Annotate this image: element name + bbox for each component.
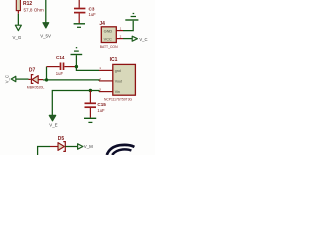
svg-text:2: 2 [120, 34, 122, 38]
svg-text:gnd: gnd [115, 69, 121, 73]
wire junction to C14 left plate [47, 66, 60, 68]
J4 pin 2 stub [116, 38, 123, 40]
svg-text:V_G: V_G [13, 35, 22, 40]
wire D5 to V_M [65, 146, 77, 148]
wire left arrow to D7 [16, 78, 29, 80]
ground symbol below C3 [74, 24, 85, 28]
svg-text:1: 1 [120, 26, 122, 30]
connector J4 body [101, 27, 116, 43]
wire C15 to ground [89, 108, 91, 118]
svg-text:1uF: 1uF [56, 71, 64, 76]
svg-text:VCC: VCC [104, 36, 112, 41]
svg-text:C15: C15 [97, 102, 106, 107]
wire Vout net (junction to IC pin 2) [47, 80, 100, 81]
IC1 pin 2 stub [99, 80, 113, 82]
wire C14 right plate to gnd junction [64, 66, 76, 68]
diode D7 (schottky, cathode left) [31, 75, 38, 84]
svg-text:1uF: 1uF [97, 108, 105, 113]
wire to V_5V [45, 0, 47, 23]
capacitor C15 [85, 103, 97, 107]
svg-text:V_M: V_M [84, 144, 93, 149]
svg-text:D7: D7 [29, 68, 36, 74]
IC1 pin 3 stub [99, 91, 113, 93]
D7 anode pin stub [38, 79, 43, 81]
capacitor C3 [74, 9, 85, 13]
wire above C3 [78, 0, 80, 8]
svg-text:Vin: Vin [115, 90, 120, 94]
svg-text:C3: C3 [89, 6, 95, 11]
IC1 pin 1 stub [99, 69, 113, 71]
svg-text:1: 1 [99, 66, 101, 70]
wire D7 to junction [43, 79, 47, 81]
ground symbol below C15 [84, 118, 96, 122]
wire below C3 [78, 13, 80, 23]
svg-text:MBR0520L: MBR0520L [27, 86, 45, 90]
junction on Vin net [89, 89, 92, 92]
supply arrow at left (pointing left) [11, 76, 16, 81]
J4 pin 1 stub [116, 30, 123, 32]
wire ground bar to junction [75, 55, 77, 66]
regulator IC1 body [113, 64, 136, 95]
logo arcs (bottom right) [107, 145, 135, 155]
svg-text:R12: R12 [23, 1, 32, 7]
svg-text:57,8 Ohm: 57,8 Ohm [24, 7, 44, 12]
pin stub below R12 [17, 11, 19, 14]
supply arrow V_5V [43, 23, 49, 28]
wire J4 VCC pin to V_C [123, 38, 132, 40]
svg-text:V_C: V_C [139, 37, 147, 42]
svg-text:J4: J4 [99, 21, 105, 27]
ground symbol above C14 junction (mirrored) [71, 48, 83, 55]
ground symbol above J4 (mirrored) [125, 14, 138, 21]
wire R12 to V_G [17, 14, 19, 25]
svg-text:2: 2 [99, 77, 101, 81]
svg-text:GND: GND [104, 28, 113, 33]
wire V_E branch corner [52, 91, 99, 116]
wire C14 branch vertical [46, 67, 48, 80]
svg-text:BATT_CON: BATT_CON [100, 45, 118, 49]
resistor R12 [16, 0, 20, 11]
svg-text:V_C: V_C [5, 75, 10, 83]
svg-text:V_E: V_E [49, 122, 57, 127]
svg-text:Vout: Vout [115, 80, 122, 84]
svg-text:C14: C14 [56, 55, 65, 60]
junction on gnd net [75, 65, 78, 68]
svg-text:IC1: IC1 [110, 57, 118, 63]
D7 cathode pin stub [29, 78, 31, 80]
diode D5 (schottky, cathode right) [58, 142, 65, 152]
supply arrow V_M [78, 144, 83, 149]
wire gnd junction to IC pin 1 [76, 67, 99, 71]
junction on Vout net [45, 78, 48, 81]
wire from bottom edge to D5 [38, 147, 50, 156]
capacitor C14 [61, 63, 64, 71]
supply arrow V_E [49, 115, 55, 120]
supply arrow V_G [15, 25, 21, 30]
svg-text:1uF: 1uF [89, 12, 97, 17]
wire J4 GND pin to ground [123, 21, 133, 31]
svg-text:V_5V: V_5V [40, 34, 51, 39]
svg-text:NCP1117ST50T3G: NCP1117ST50T3G [104, 97, 133, 101]
D5 anode stub [50, 146, 58, 148]
wire Vin junction to C15 [89, 91, 91, 103]
supply arrow V_C [132, 36, 137, 41]
